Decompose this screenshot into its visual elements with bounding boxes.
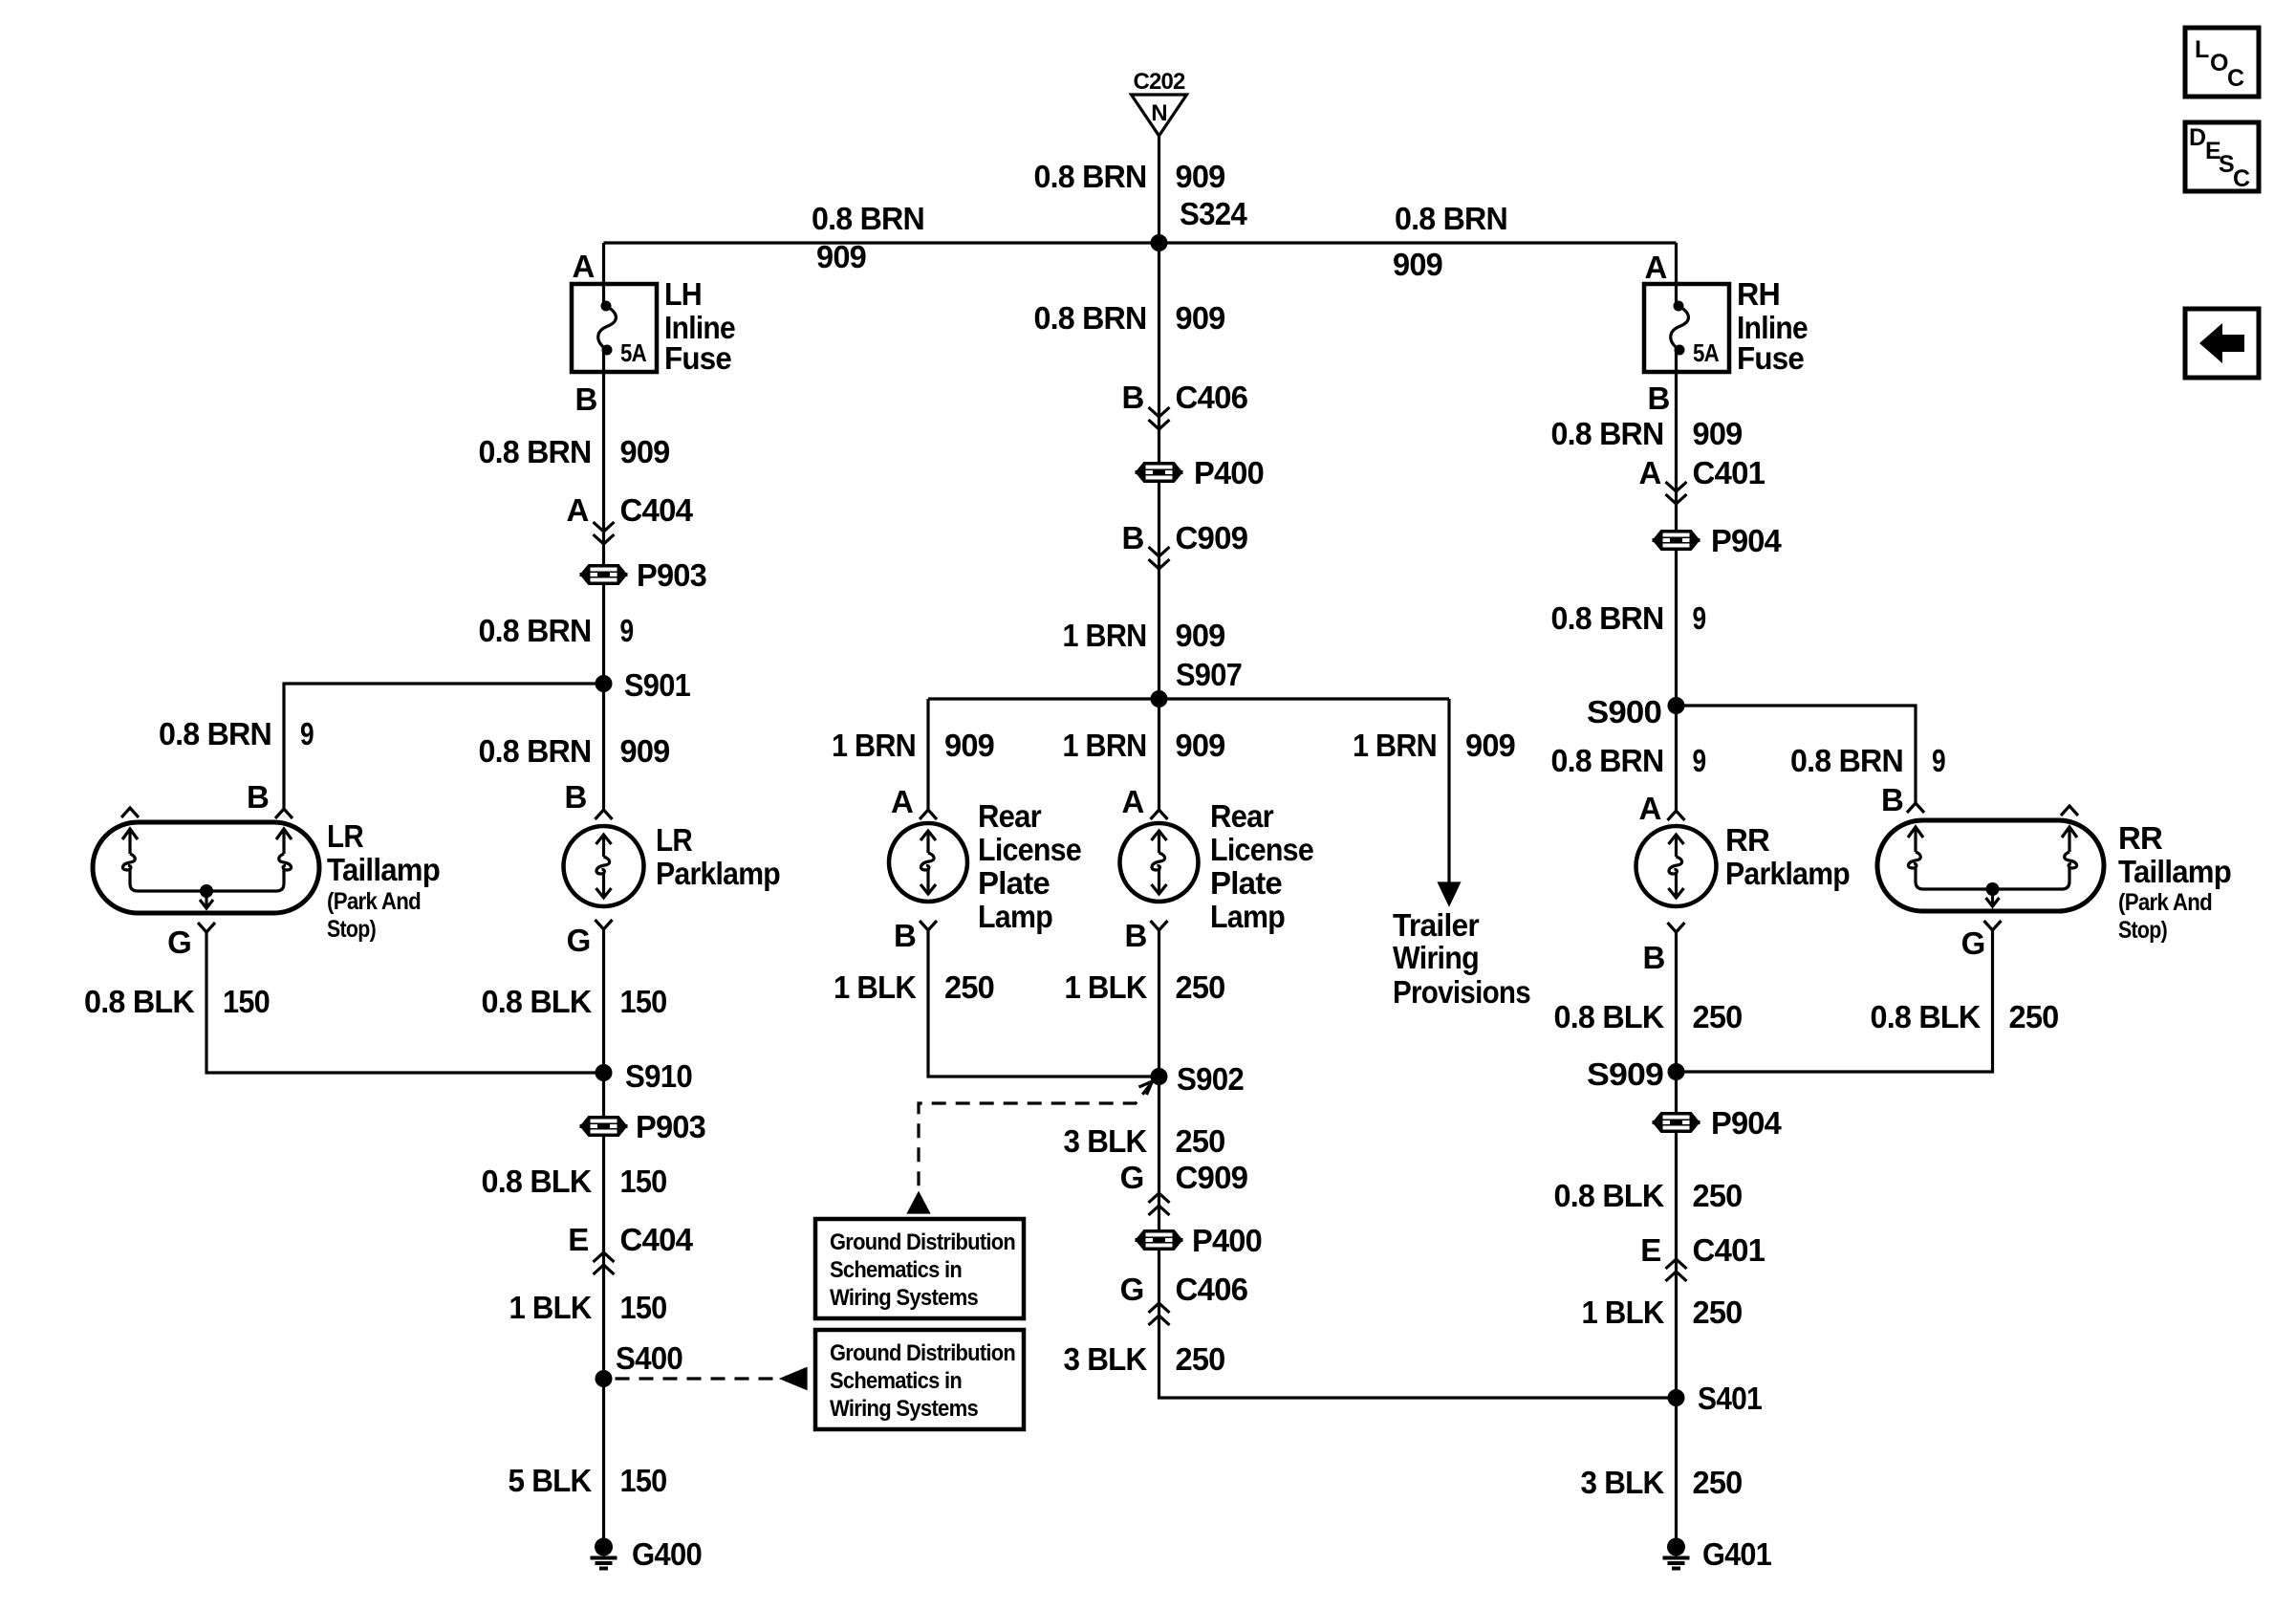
- connector C909 pin B: [1121, 520, 1247, 569]
- svg-text:1 BLK: 1 BLK: [834, 969, 917, 1005]
- svg-text:B: B: [1124, 918, 1146, 953]
- svg-text:250: 250: [1176, 969, 1225, 1005]
- svg-text:P400: P400: [1194, 455, 1264, 490]
- connector C406 pin G: [1120, 1272, 1248, 1325]
- svg-text:0.8 BRN: 0.8 BRN: [812, 201, 924, 236]
- svg-text:9: 9: [1693, 743, 1706, 778]
- svg-text:0.8 BLK: 0.8 BLK: [482, 984, 593, 1019]
- svg-text:1 BRN: 1 BRN: [1063, 618, 1147, 653]
- svg-text:G: G: [1961, 925, 1985, 961]
- svg-text:3 BLK: 3 BLK: [1581, 1465, 1665, 1500]
- svg-text:250: 250: [1176, 1123, 1225, 1159]
- open arrow at S902 end of dashed reference: [1139, 1081, 1153, 1095]
- legend box back-arrow: [2185, 309, 2259, 378]
- wire BRN 909 from C202 down to S324: [1158, 136, 1160, 243]
- grommet P400: [1136, 455, 1265, 490]
- svg-text:C406: C406: [1176, 380, 1248, 415]
- wire RH fuse pin B down through C401, P904 to S900: [1675, 350, 1678, 706]
- svg-text:Schematics in: Schematics in: [830, 1257, 962, 1283]
- svg-text:S400: S400: [616, 1340, 682, 1376]
- svg-text:S900: S900: [1587, 694, 1661, 729]
- wire S900 to RR Parklamp pin A: [1675, 706, 1678, 811]
- lamp LR Parklamp: [564, 810, 781, 929]
- wire branch S900 right and down to RR Taillamp pin B: [1677, 706, 1917, 803]
- wire LR Parklamp pin G down to S910: [602, 929, 605, 1073]
- splice node S910: [596, 1064, 613, 1081]
- svg-text:909: 909: [1176, 618, 1225, 653]
- connector C401 pin E: [1640, 1232, 1765, 1281]
- lamp center Rear License Plate Lamp: [1120, 798, 1314, 934]
- svg-text:A: A: [572, 249, 594, 284]
- svg-text:G401: G401: [1702, 1536, 1771, 1572]
- wire S909 down through P904, C401 to S401: [1675, 1072, 1678, 1398]
- splice node S400: [596, 1370, 613, 1387]
- svg-text:LR: LR: [656, 822, 693, 858]
- grommet P400: [1136, 1223, 1263, 1258]
- svg-text:1 BLK: 1 BLK: [1582, 1295, 1665, 1330]
- svg-text:Taillamp: Taillamp: [2118, 854, 2231, 889]
- svg-text:Rear: Rear: [1210, 798, 1274, 834]
- legend box LOC: [2185, 28, 2259, 97]
- svg-text:O: O: [2210, 50, 2228, 76]
- svg-text:C406: C406: [1176, 1272, 1248, 1307]
- svg-text:Parklamp: Parklamp: [1725, 856, 1850, 891]
- svg-text:0.8 BRN: 0.8 BRN: [479, 434, 592, 469]
- svg-text:1 BLK: 1 BLK: [509, 1290, 593, 1325]
- svg-text:S909: S909: [1587, 1056, 1663, 1092]
- svg-text:A: A: [891, 784, 913, 819]
- svg-text:S901: S901: [624, 667, 690, 703]
- svg-text:RH: RH: [1737, 276, 1780, 312]
- wire left drop S324 bus down into LH fuse to fuse element: [602, 243, 605, 308]
- svg-text:B: B: [1642, 940, 1664, 975]
- svg-text:909: 909: [1176, 300, 1225, 336]
- wire LR Taillamp pin G down and right to S910: [206, 932, 604, 1073]
- lamp left Rear License Plate Lamp: [889, 798, 1081, 934]
- svg-text:LH: LH: [664, 276, 702, 312]
- svg-text:P903: P903: [637, 557, 706, 593]
- svg-text:B: B: [894, 918, 916, 953]
- svg-text:5A: 5A: [620, 338, 647, 367]
- svg-text:Wiring Systems: Wiring Systems: [830, 1396, 978, 1422]
- arrowhead trailer wiring provisions: [1440, 883, 1459, 903]
- connector C909 pin G: [1120, 1160, 1248, 1215]
- svg-text:G: G: [1120, 1272, 1144, 1307]
- label LH Inline Fuse: [664, 276, 735, 376]
- svg-text:150: 150: [620, 1463, 667, 1498]
- connector C404 pin E: [568, 1222, 693, 1274]
- svg-text:5A: 5A: [1693, 338, 1720, 367]
- svg-text:S401: S401: [1698, 1381, 1762, 1416]
- svg-text:Lamp: Lamp: [978, 899, 1052, 934]
- wire center: S324 down through C406, P400, C909 to S907: [1158, 243, 1160, 699]
- svg-text:B: B: [564, 779, 586, 815]
- svg-text:G: G: [567, 923, 591, 958]
- svg-text:Schematics in: Schematics in: [830, 1368, 962, 1394]
- svg-text:(Park And: (Park And: [2118, 889, 2212, 916]
- svg-text:Ground Distribution: Ground Distribution: [830, 1229, 1015, 1255]
- svg-text:P400: P400: [1192, 1223, 1262, 1258]
- svg-text:Plate: Plate: [978, 865, 1050, 901]
- svg-text:909: 909: [1465, 728, 1515, 763]
- svg-text:0.8 BRN: 0.8 BRN: [1551, 600, 1664, 636]
- arrowhead dashed reference pointing up toward S902: [909, 1194, 928, 1212]
- svg-text:0.8 BLK: 0.8 BLK: [1554, 1178, 1665, 1213]
- svg-text:250: 250: [2009, 999, 2059, 1034]
- svg-text:License: License: [978, 832, 1081, 867]
- svg-text:P903: P903: [636, 1109, 705, 1144]
- svg-text:C404: C404: [620, 492, 694, 528]
- svg-text:0.8 BRN: 0.8 BRN: [1034, 300, 1147, 336]
- svg-text:G400: G400: [632, 1536, 702, 1572]
- svg-text:B: B: [247, 779, 269, 815]
- wire S400 down to ground G400: [602, 1379, 605, 1538]
- svg-text:1 BRN: 1 BRN: [1063, 728, 1147, 763]
- label Trailer Wiring Provisions: [1393, 907, 1530, 1010]
- svg-text:9: 9: [1693, 600, 1706, 636]
- svg-text:Parklamp: Parklamp: [656, 856, 780, 891]
- dashed reference from S902 to upper Ground Distribution box: [919, 1083, 1152, 1197]
- svg-text:C202: C202: [1134, 69, 1185, 95]
- svg-text:B: B: [1881, 782, 1903, 817]
- svg-text:Stop): Stop): [327, 916, 376, 943]
- svg-text:D: D: [2189, 124, 2205, 151]
- svg-text:909: 909: [816, 239, 866, 274]
- svg-text:L: L: [2195, 36, 2209, 63]
- svg-text:250: 250: [1693, 1295, 1743, 1330]
- svg-text:LR: LR: [327, 818, 364, 854]
- wire S901 to LR Parklamp pin B: [602, 684, 605, 810]
- lamp RR Parklamp: [1636, 811, 1851, 932]
- svg-text:Fuse: Fuse: [1737, 340, 1804, 376]
- svg-text:S907: S907: [1176, 657, 1242, 692]
- svg-text:Wiring Systems: Wiring Systems: [830, 1285, 978, 1311]
- connector C404 pin A: [566, 492, 693, 544]
- svg-text:909: 909: [1693, 416, 1743, 451]
- svg-text:3 BLK: 3 BLK: [1064, 1341, 1148, 1377]
- svg-text:1 BRN: 1 BRN: [1353, 728, 1437, 763]
- wire S910 down through P903, C404 to S400: [602, 1073, 605, 1379]
- connector C401 pin A: [1638, 455, 1765, 504]
- svg-text:1 BRN: 1 BRN: [832, 728, 916, 763]
- svg-text:0.8 BLK: 0.8 BLK: [1871, 999, 1982, 1034]
- svg-text:0.8 BLK: 0.8 BLK: [1554, 999, 1665, 1034]
- svg-text:150: 150: [620, 1164, 667, 1199]
- svg-text:0.8 BRN: 0.8 BRN: [1790, 743, 1903, 778]
- svg-text:B: B: [574, 381, 596, 417]
- svg-text:P904: P904: [1711, 523, 1782, 558]
- splice node S902: [1151, 1068, 1168, 1085]
- svg-text:0.8 BRN: 0.8 BRN: [1395, 201, 1507, 236]
- svg-text:B: B: [1121, 520, 1143, 555]
- svg-text:S324: S324: [1180, 196, 1247, 231]
- fuse RH Inline Fuse 5A: [1644, 284, 1729, 372]
- svg-text:0.8 BRN: 0.8 BRN: [479, 613, 592, 648]
- svg-text:C401: C401: [1693, 455, 1765, 490]
- svg-text:0.8 BLK: 0.8 BLK: [84, 984, 195, 1019]
- wire center license lamp: S907 down to pin A: [1158, 699, 1160, 810]
- svg-text:C909: C909: [1176, 1160, 1248, 1195]
- svg-text:250: 250: [1693, 1465, 1743, 1500]
- splice node S900: [1668, 697, 1685, 714]
- connector C406 pin B: [1121, 380, 1247, 429]
- svg-text:0.8 BRN: 0.8 BRN: [479, 733, 592, 769]
- svg-text:A: A: [1638, 455, 1660, 490]
- wire RR Parklamp pin B down to S909: [1675, 932, 1678, 1072]
- svg-text:909: 909: [1393, 247, 1442, 282]
- svg-text:N: N: [1151, 100, 1167, 126]
- arrowhead dashed reference pointing left toward S400: [783, 1369, 806, 1388]
- svg-text:150: 150: [223, 984, 270, 1019]
- svg-text:E: E: [568, 1222, 588, 1257]
- splice node S401: [1668, 1389, 1685, 1406]
- svg-text:0.8 BRN: 0.8 BRN: [1034, 159, 1147, 194]
- svg-text:P904: P904: [1711, 1105, 1782, 1141]
- wire RR Taillamp pin G down and left to S909: [1677, 929, 1993, 1072]
- svg-text:C404: C404: [620, 1222, 694, 1257]
- svg-text:250: 250: [944, 969, 994, 1005]
- svg-text:C: C: [2227, 65, 2244, 92]
- svg-text:License: License: [1210, 832, 1313, 867]
- reference box Ground Distribution Schematics in Wiring Systems: [815, 1330, 1024, 1429]
- svg-text:Ground Distribution: Ground Distribution: [830, 1340, 1015, 1366]
- svg-text:S: S: [2219, 151, 2234, 178]
- legend box DESC: [2185, 122, 2259, 192]
- wire S907 horizontal bus to left license lamp and trailer drop: [928, 697, 1449, 700]
- svg-text:A: A: [1644, 250, 1666, 285]
- splice node S909: [1668, 1063, 1685, 1080]
- svg-text:909: 909: [620, 434, 670, 469]
- svg-text:S902: S902: [1177, 1061, 1244, 1097]
- svg-text:0.8 BRN: 0.8 BRN: [1551, 743, 1664, 778]
- wire branch S901 left and down to LR Taillamp pin B: [284, 684, 604, 809]
- svg-text:5 BLK: 5 BLK: [509, 1463, 593, 1498]
- svg-text:A: A: [1121, 784, 1143, 819]
- wire center license lamp pin B down to S902: [1158, 930, 1160, 1077]
- svg-text:250: 250: [1693, 1178, 1743, 1213]
- svg-text:Taillamp: Taillamp: [327, 852, 440, 887]
- svg-text:C909: C909: [1176, 520, 1248, 555]
- fuse LH Inline Fuse 5A: [572, 284, 657, 372]
- splice node S907: [1151, 690, 1168, 707]
- splice node S324: [1151, 234, 1168, 251]
- svg-text:G: G: [1120, 1160, 1144, 1195]
- wire S902 down through C909, P400, C406 then right to S401: [1159, 1077, 1677, 1398]
- grommet P903: [580, 557, 707, 593]
- wire right drop S324 bus down into RH fuse to fuse element: [1675, 243, 1678, 308]
- svg-text:C: C: [2233, 165, 2250, 192]
- svg-text:Rear: Rear: [978, 798, 1042, 834]
- svg-text:Plate: Plate: [1210, 865, 1282, 901]
- svg-text:(Park And: (Park And: [327, 888, 421, 915]
- dashed reference from S400 to lower Ground Distribution box: [616, 1377, 777, 1380]
- grommet P904: [1653, 1105, 1783, 1141]
- svg-text:B: B: [1647, 381, 1669, 416]
- svg-text:9: 9: [300, 716, 314, 751]
- svg-text:RR: RR: [2118, 820, 2163, 856]
- svg-text:1 BLK: 1 BLK: [1065, 969, 1148, 1005]
- svg-text:909: 909: [620, 733, 670, 769]
- lamp LR Taillamp (Park And Stop): [93, 808, 440, 943]
- svg-text:909: 909: [1176, 728, 1225, 763]
- svg-text:150: 150: [620, 984, 667, 1019]
- wire trailer provisions drop with arrow: [1447, 699, 1450, 884]
- reference box Ground Distribution Schematics in Wiring Systems: [815, 1219, 1024, 1318]
- svg-text:9: 9: [620, 613, 634, 648]
- svg-text:E: E: [1640, 1232, 1660, 1268]
- svg-text:0.8 BRN: 0.8 BRN: [1551, 416, 1664, 451]
- svg-text:G: G: [167, 925, 191, 960]
- ground G400: [591, 1536, 703, 1572]
- svg-text:3 BLK: 3 BLK: [1064, 1123, 1148, 1159]
- ground G401: [1663, 1536, 1772, 1572]
- svg-text:250: 250: [1693, 999, 1743, 1034]
- svg-text:9: 9: [1932, 743, 1945, 778]
- svg-text:B: B: [1121, 380, 1143, 415]
- svg-text:0.8 BRN: 0.8 BRN: [159, 716, 271, 751]
- svg-text:Stop): Stop): [2118, 917, 2167, 944]
- svg-text:250: 250: [1176, 1341, 1225, 1377]
- svg-text:Lamp: Lamp: [1210, 899, 1285, 934]
- svg-text:150: 150: [620, 1290, 667, 1325]
- svg-text:Provisions: Provisions: [1393, 974, 1530, 1010]
- svg-text:0.8 BLK: 0.8 BLK: [482, 1164, 593, 1199]
- grommet P904: [1653, 523, 1783, 558]
- wire BRN 909 main bus: S324 horizontal from LH fuse drop to RH fuse drop: [604, 241, 1677, 244]
- svg-text:S910: S910: [625, 1058, 692, 1094]
- wire S401 down to ground G401: [1675, 1398, 1678, 1538]
- svg-text:RR: RR: [1725, 822, 1770, 858]
- label RH Inline Fuse: [1737, 276, 1808, 376]
- grommet P903: [580, 1109, 706, 1144]
- connector C202 triangle with N: [1132, 95, 1187, 136]
- svg-text:A: A: [1638, 791, 1660, 826]
- svg-text:Trailer: Trailer: [1393, 907, 1480, 943]
- svg-text:A: A: [566, 492, 588, 528]
- svg-text:C401: C401: [1693, 1232, 1765, 1268]
- svg-text:Wiring: Wiring: [1393, 940, 1479, 975]
- svg-text:909: 909: [1176, 159, 1225, 194]
- wire left license lamp pin B down and right to S902: [928, 930, 1159, 1077]
- svg-text:Fuse: Fuse: [664, 340, 731, 376]
- lamp RR Taillamp (Park And Stop): [1877, 803, 2231, 944]
- wire left license lamp drop from S907 bus to pin A: [926, 699, 929, 810]
- wire LH fuse pin B down through C404, P903 to S901: [602, 350, 605, 684]
- splice node S901: [596, 675, 613, 692]
- svg-text:909: 909: [944, 728, 994, 763]
